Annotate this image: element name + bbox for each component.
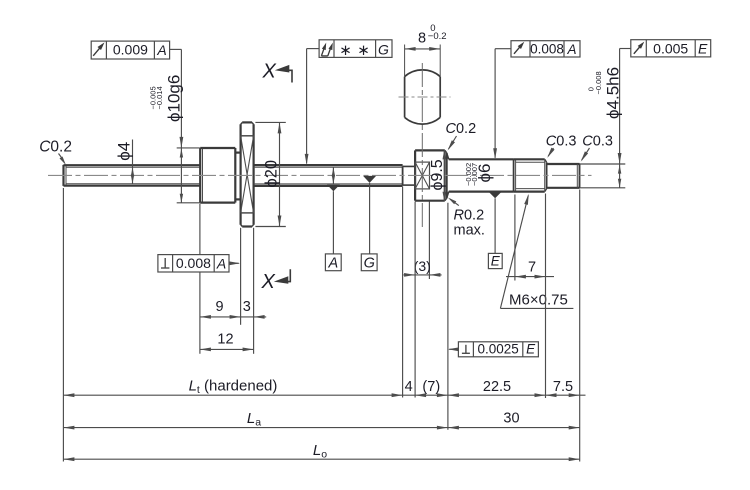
svg-text:E: E [491,254,501,269]
shaft phi10g6 journal [200,148,235,203]
dimension phi4 [115,140,135,184]
svg-text:ϕ4.5h6: ϕ4.5h6 [604,67,623,119]
thread relief neck [403,166,416,185]
svg-text:A: A [566,42,576,57]
svg-text:4: 4 [405,379,413,395]
dimension phi20 [255,122,285,226]
svg-text:0.0025: 0.0025 [477,341,518,356]
svg-text:ϕ4: ϕ4 [115,142,134,161]
svg-text:7.5: 7.5 [553,379,573,395]
svg-text:R0.2: R0.2 [454,207,485,223]
svg-text:−0.007: −0.007 [470,163,479,186]
svg-text:0.008: 0.008 [530,42,564,57]
label phi6 with tolerance [464,163,494,186]
svg-text:(7): (7) [422,379,440,395]
label C0.2 collar chamfer [446,121,477,151]
dimension phi10g6 with tolerance [149,49,200,202]
extension lines bottom rows [63,187,579,462]
svg-text:−0.014: −0.014 [155,86,164,109]
leader from 0.008A frame to phi6 [493,49,511,160]
perpendicularity frame 0.008 A [158,255,240,272]
svg-text:C0.2: C0.2 [39,139,72,156]
svg-text:Lt (hardened): Lt (hardened) [189,378,278,397]
extension lines 9 3 12 [200,204,254,354]
svg-text:A: A [216,255,226,271]
svg-text:E: E [526,342,536,357]
shaft phi4.5h6 end section [547,164,580,188]
datum G symbol [361,176,377,272]
feature control frame runout 0.008 A right [511,41,580,57]
dimension phi9.5 [429,150,446,200]
svg-text:X: X [262,61,277,83]
dimension row Lo [63,442,579,461]
svg-text:∗: ∗ [357,42,370,59]
svg-text:C0.3: C0.3 [546,134,577,150]
dimension 3 [241,299,267,319]
feature control frame total runout ** G [307,40,392,59]
section view arrow X top [262,61,293,83]
section position line [421,63,423,227]
label C0.3 thread end chamfer [546,134,577,158]
svg-text:G: G [364,256,375,272]
svg-text:X: X [261,271,276,293]
leader to screw surface from total runout frame [305,49,309,165]
svg-text:0.005: 0.005 [653,40,688,56]
section view arrow X bottom [261,269,291,293]
label M6x0.75 with leader [500,194,573,309]
datum A symbol [325,185,341,272]
M6 thread section [514,159,547,191]
svg-text:ϕ10g6: ϕ10g6 [165,75,184,122]
svg-text:0.009: 0.009 [113,42,148,58]
svg-text:E: E [698,41,708,57]
dimension phi4.5h6 with tolerance [580,49,631,188]
label R0.2 max fillet [448,198,485,239]
svg-text:9: 9 [215,299,223,315]
shaft phi6 section [447,153,514,198]
section X-X circle with flats [399,70,451,124]
dimension 9 [200,299,241,319]
label C0.2 left end chamfer [39,139,72,166]
svg-text:(3): (3) [414,258,431,274]
svg-text:M6×0.75: M6×0.75 [509,292,568,309]
svg-text:8: 8 [418,31,426,47]
svg-text:A: A [327,256,338,272]
feature control frame runout 0.005 E [631,40,711,57]
perpendicularity frame 0.0025 E [448,341,539,356]
svg-text:La: La [247,410,261,429]
datum E symbol [488,192,502,269]
shaft phi4 left section [64,165,201,186]
svg-text:max.: max. [454,222,485,238]
svg-text:A: A [156,42,166,58]
svg-text:−0.2: −0.2 [428,31,447,42]
incomplete thread box with cross [415,162,429,189]
dimension row La 30 [63,410,579,430]
svg-text:Lo: Lo [313,442,327,461]
dimension row Lt 4 (7) 22.5 7.5 [63,378,585,398]
dimension 12 [200,331,254,351]
dimension 7 thread length [506,194,554,399]
svg-text:7: 7 [528,260,536,276]
svg-text:3: 3 [243,299,251,315]
svg-text:∗: ∗ [339,42,352,59]
screw root diameter arrows [332,167,335,184]
svg-text:ϕ20: ϕ20 [263,160,281,188]
svg-text:0.008: 0.008 [176,255,211,271]
svg-text:ϕ9.5: ϕ9.5 [429,159,446,190]
neck between journal and flange [235,153,240,200]
svg-text:C0.3: C0.3 [582,134,613,150]
svg-text:22.5: 22.5 [483,379,511,395]
dimension 8 -0.2 across flats [405,23,447,77]
flange phi20 [241,122,254,226]
svg-text:C0.2: C0.2 [446,121,477,137]
svg-text:12: 12 [217,331,233,347]
svg-text:−0.008: −0.008 [594,71,603,94]
svg-text:30: 30 [503,411,519,427]
label C0.3 shaft end chamfer [581,134,613,162]
feature control frame runout 0.009 A [91,41,181,59]
ball screw threaded section [254,165,403,186]
svg-text:G: G [378,42,389,58]
collar phi9.5 [415,150,447,200]
dimension (3) [403,202,441,280]
main centerline [48,174,592,176]
